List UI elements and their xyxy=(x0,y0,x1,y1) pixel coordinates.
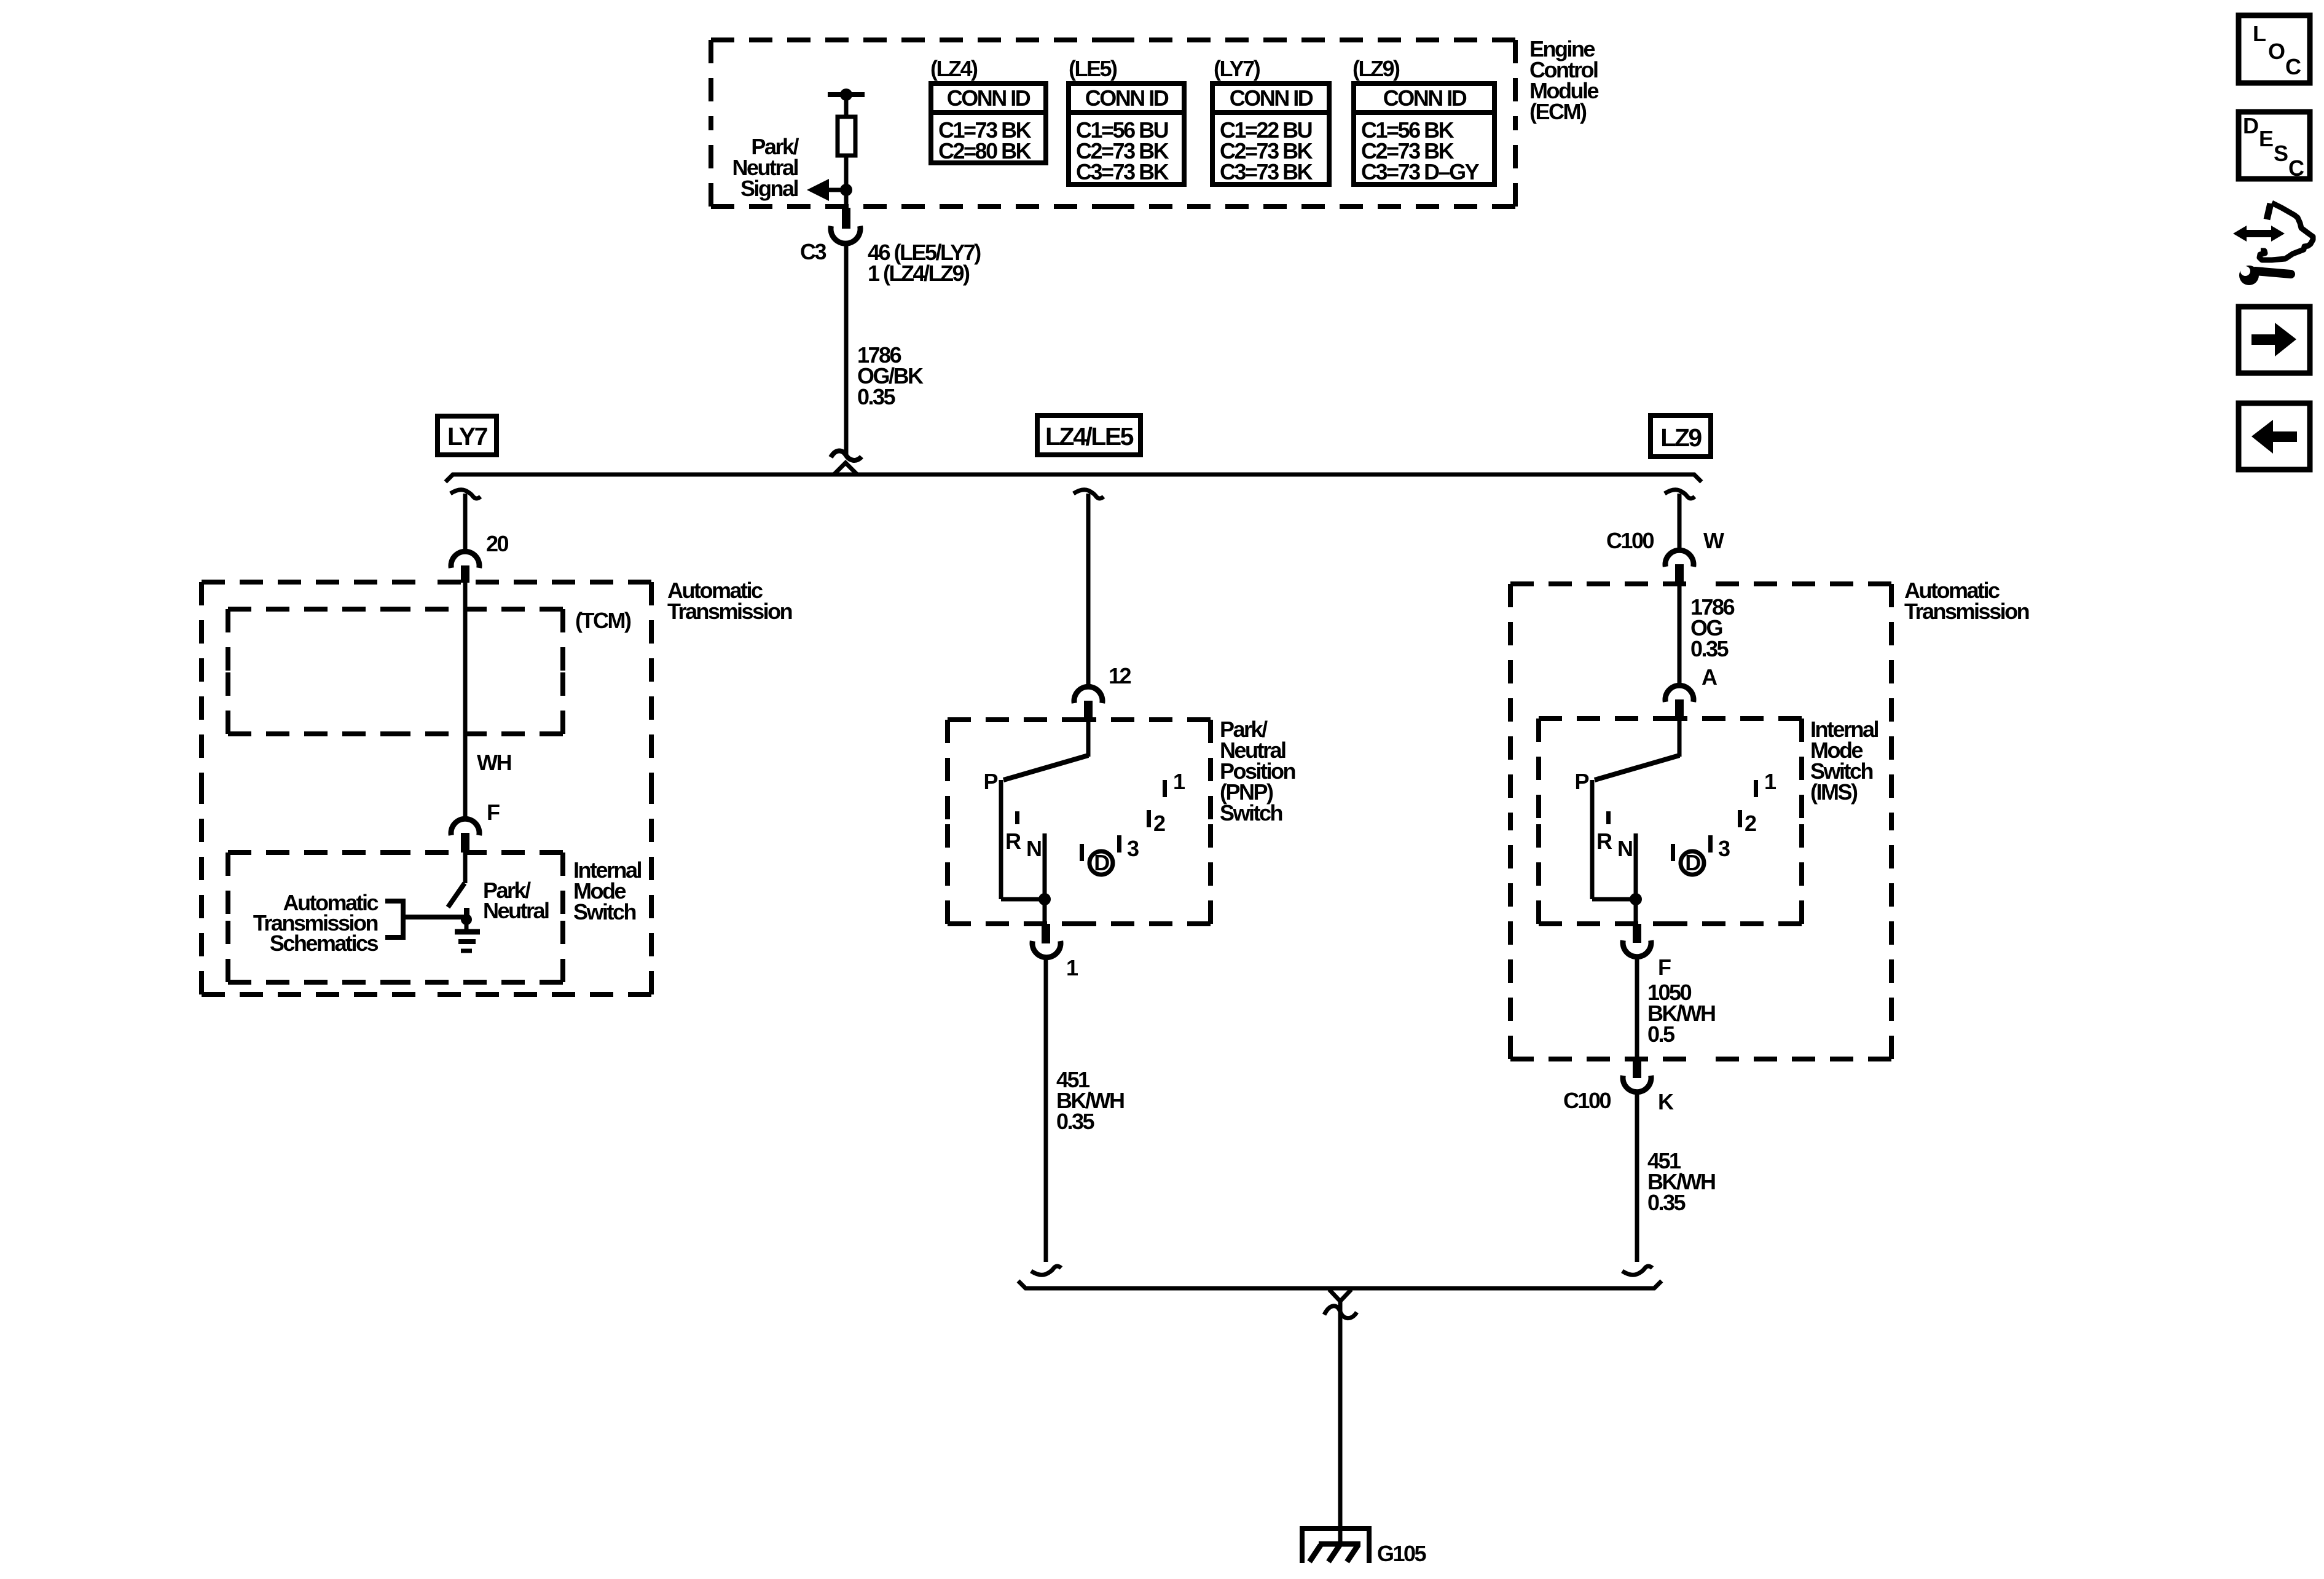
wire 451 BK/WH down to lower bus xyxy=(1044,957,1048,1262)
svg-text:(LZ4): (LZ4) xyxy=(930,56,978,81)
position 1 tick+label (PNP) xyxy=(1163,769,1185,797)
wire WH through TCM xyxy=(463,582,468,818)
wire to schematics bracket xyxy=(403,915,465,919)
Internal Mode Switch box (left) xyxy=(228,853,563,982)
wire: LZ9 branch down to C100 xyxy=(1678,494,1682,550)
svg-text:C100: C100 xyxy=(1606,528,1654,553)
IMS switch lever to P xyxy=(1595,755,1679,780)
svg-text:Transmission: Transmission xyxy=(1904,599,2029,624)
wire label 1786 OG/BK 0.35 xyxy=(857,342,924,409)
position D tick+circled D (IMS) xyxy=(1671,844,1704,875)
connector C100/W: cap arc xyxy=(1665,550,1694,567)
svg-text:Transmission: Transmission xyxy=(667,599,792,624)
wire: LZ9 branch hook at bus xyxy=(1665,490,1695,498)
engine tag LY7 xyxy=(438,416,497,455)
wire label 451 BK/WH 0.35 (right) xyxy=(1647,1148,1715,1215)
svg-text:0.35: 0.35 xyxy=(857,384,896,409)
svg-text:LZ9: LZ9 xyxy=(1660,423,1702,452)
pin numbers at C3 xyxy=(868,240,981,286)
svg-text:(TCM): (TCM) xyxy=(575,608,631,633)
PNP wire inside xyxy=(1086,721,1091,757)
splice tilde on wire above bus xyxy=(831,451,862,460)
svg-text:R: R xyxy=(1596,829,1612,854)
CONN ID table (LZ9) xyxy=(1351,56,1497,184)
svg-text:2: 2 xyxy=(1745,811,1756,836)
svg-text:D: D xyxy=(2243,113,2258,138)
connector C3: pin stub xyxy=(842,208,850,229)
PNP switch label xyxy=(1220,717,1295,825)
svg-text:Signal: Signal xyxy=(740,176,798,201)
connector at pin 20: pin stub xyxy=(461,565,469,583)
connector C3: cup xyxy=(831,226,860,243)
exit wire (PNP pin 1) xyxy=(1043,899,1047,924)
N contact line (PNP) xyxy=(1043,833,1047,899)
svg-text:C: C xyxy=(2285,54,2301,79)
wire label 451 BK/WH 0.35 (middle) xyxy=(1056,1067,1124,1134)
wire resistor to signal node xyxy=(844,156,849,209)
svg-text:N: N xyxy=(1026,836,1041,861)
contact junction dot xyxy=(461,914,472,925)
position 3 tick+label (PNP) xyxy=(1117,835,1139,861)
Automatic Transmission label (left) xyxy=(667,578,792,624)
CONN ID table (LZ4) xyxy=(928,56,1048,163)
P contact line (IMS) xyxy=(1590,780,1595,899)
position 1 tick+label (IMS) xyxy=(1754,769,1776,797)
connector pin F: stub xyxy=(1633,924,1641,943)
svg-text:CONN ID: CONN ID xyxy=(1085,85,1169,111)
svg-text:1: 1 xyxy=(1066,955,1078,980)
bracket to Automatic Transmission Schematics xyxy=(385,899,403,940)
sidebar icon LOC xyxy=(2239,15,2310,83)
wire 451 BK/WH down to lower bus (right) xyxy=(1635,1092,1639,1262)
connector at F: cap arc xyxy=(451,819,479,835)
wire 1786 OG inside box xyxy=(1678,584,1682,685)
R tick (IMS) xyxy=(1606,811,1611,824)
svg-text:F: F xyxy=(1658,955,1671,980)
junction dot (PNP) xyxy=(1038,893,1051,905)
svg-text:L: L xyxy=(2253,21,2266,46)
Automatic Transmission label (right) xyxy=(1904,578,2029,624)
svg-text:Schematics: Schematics xyxy=(270,931,379,956)
svg-text:E: E xyxy=(2259,126,2273,151)
Internal Mode Switch label (left) xyxy=(573,857,642,924)
svg-text:CONN ID: CONN ID xyxy=(1383,85,1467,111)
sidebar icon: double arrow xyxy=(2233,226,2285,242)
svg-text:LZ4/LE5: LZ4/LE5 xyxy=(1045,422,1134,451)
resistor (pull-up inside ECM) xyxy=(838,117,855,156)
connector pin 1: cup xyxy=(1032,941,1061,958)
svg-text:3: 3 xyxy=(1718,836,1730,861)
upper bus wire xyxy=(446,474,1702,482)
svg-text:G105: G105 xyxy=(1377,1541,1427,1566)
bottom hook at lower bus (middle) xyxy=(1031,1266,1061,1275)
svg-text:WH: WH xyxy=(477,750,511,775)
svg-text:1 (LZ4/LZ9): 1 (LZ4/LZ9) xyxy=(868,261,970,286)
IMS switch label (right) xyxy=(1810,717,1878,805)
node: Park/Neutral Signal junction with arrow xyxy=(807,179,852,201)
svg-text:C2=80 BK: C2=80 BK xyxy=(938,138,1032,163)
svg-text:A: A xyxy=(1702,664,1717,690)
svg-text:0.35: 0.35 xyxy=(1690,636,1729,661)
svg-text:(IMS): (IMS) xyxy=(1810,779,1858,805)
sidebar icon DESC xyxy=(2239,112,2310,181)
CONN ID table (LY7) xyxy=(1210,56,1332,184)
svg-text:3: 3 xyxy=(1127,836,1139,861)
svg-text:O: O xyxy=(2268,39,2285,64)
svg-text:0.35: 0.35 xyxy=(1056,1109,1095,1134)
svg-text:D: D xyxy=(1685,850,1700,875)
svg-text:Switch: Switch xyxy=(1220,800,1282,825)
svg-text:(LY7): (LY7) xyxy=(1214,56,1260,81)
svg-text:12: 12 xyxy=(1109,663,1131,688)
splice chevron at bus junction xyxy=(834,463,857,474)
ECM module box xyxy=(711,40,1515,207)
connector at pin 12: cap arc xyxy=(1074,687,1102,703)
svg-text:W: W xyxy=(1703,528,1724,553)
svg-text:(LZ9): (LZ9) xyxy=(1352,56,1400,81)
svg-text:P: P xyxy=(983,769,997,794)
bottom hook at lower bus (right) xyxy=(1622,1266,1652,1275)
Park/Neutral position label (left IMS) xyxy=(483,878,549,923)
svg-text:K: K xyxy=(1658,1089,1674,1114)
switch lever (left IMS) xyxy=(448,883,465,907)
svg-text:P: P xyxy=(1574,769,1588,794)
svg-text:Switch: Switch xyxy=(573,899,636,924)
wire: LZ4/LE5 branch down to pin 12 xyxy=(1086,494,1091,685)
svg-text:C3: C3 xyxy=(800,239,826,264)
connector at pin 12: pin stub xyxy=(1084,701,1093,721)
PNP switch box xyxy=(948,720,1211,924)
switch wire into IMS xyxy=(463,853,468,883)
connector at pin 20: cap arc xyxy=(451,551,479,568)
position D tick+circled D (PNP) xyxy=(1080,844,1113,875)
splice chevron below lower bus xyxy=(1329,1290,1351,1301)
svg-text:0.35: 0.35 xyxy=(1647,1190,1686,1215)
svg-text:(ECM): (ECM) xyxy=(1529,99,1587,124)
sidebar icon: car outline xyxy=(2259,203,2313,260)
position 3 tick+label (IMS) xyxy=(1708,835,1730,861)
connector at pin A: cap arc xyxy=(1665,685,1694,702)
engine tag LZ9 xyxy=(1651,415,1711,457)
bottom wire P to N (PNP) xyxy=(1001,897,1045,902)
wire label 1786 OG 0.35 xyxy=(1690,594,1735,661)
IMS switch box (right) xyxy=(1539,719,1802,924)
ground wire down to G105 xyxy=(1338,1302,1343,1544)
bottom wire P to N (IMS) xyxy=(1592,897,1636,902)
N contact line (IMS) xyxy=(1634,833,1638,899)
svg-text:C3=73 D–GY: C3=73 D–GY xyxy=(1361,159,1480,184)
sidebar icon: next arrow box xyxy=(2239,307,2310,373)
position 2 tick+label (IMS) xyxy=(1738,810,1756,836)
Automatic Transmission Schematics text xyxy=(253,890,379,956)
svg-text:C100: C100 xyxy=(1563,1088,1611,1113)
ECM label xyxy=(1529,36,1598,124)
PNP switch lever to P xyxy=(1003,755,1088,780)
wire: LY7 branch down to pin 20 xyxy=(463,494,468,551)
svg-text:20: 20 xyxy=(486,531,509,556)
engine tag LZ4/LE5 xyxy=(1037,415,1140,455)
splice tilde on ground wire xyxy=(1324,1306,1357,1318)
connector C100/K: stub xyxy=(1633,1059,1641,1078)
Park/Neutral Signal text xyxy=(732,134,799,201)
svg-text:CONN ID: CONN ID xyxy=(947,85,1030,111)
position 2 tick+label (PNP) xyxy=(1147,810,1165,836)
R tick (PNP) xyxy=(1015,811,1019,824)
wire 1050 BK/WH xyxy=(1635,956,1639,1059)
svg-text:S: S xyxy=(2274,141,2288,166)
node: pull-up bar with junction xyxy=(828,89,865,117)
svg-text:0.5: 0.5 xyxy=(1647,1022,1675,1047)
fixed contact tick xyxy=(464,908,469,917)
sidebar icon: back arrow box xyxy=(2239,403,2310,470)
sidebar icon: wrench xyxy=(2236,258,2291,285)
ground G105 symbol xyxy=(1302,1529,1369,1563)
exit wire (IMS pin F) xyxy=(1634,899,1638,924)
connector pin 1: stub xyxy=(1042,924,1050,943)
junction dot (IMS) xyxy=(1630,893,1642,905)
svg-text:Neutral: Neutral xyxy=(483,898,549,923)
wire: LY7 branch hook at bus xyxy=(450,490,481,498)
wire: LZ4/LE5 branch hook at bus xyxy=(1074,490,1104,498)
connector at F: pin stub xyxy=(461,833,469,853)
svg-text:D: D xyxy=(1094,850,1109,875)
svg-text:1: 1 xyxy=(1764,769,1776,794)
svg-text:2: 2 xyxy=(1153,811,1165,836)
svg-text:1: 1 xyxy=(1173,769,1185,794)
svg-text:(LE5): (LE5) xyxy=(1069,56,1117,81)
svg-text:R: R xyxy=(1005,829,1021,854)
lower bus wire xyxy=(1018,1281,1662,1288)
connector pin F: cup xyxy=(1623,940,1651,957)
P contact line (PNP) xyxy=(999,780,1003,899)
connector C100/W: pin stub xyxy=(1675,564,1684,585)
svg-text:C: C xyxy=(2288,156,2304,181)
svg-text:C3=73 BK: C3=73 BK xyxy=(1220,159,1313,184)
wire label 1050 BK/WH 0.5 xyxy=(1647,980,1715,1047)
Automatic Transmission outer box (left) xyxy=(202,582,651,994)
svg-text:N: N xyxy=(1617,836,1632,861)
CONN ID table (LE5) xyxy=(1066,56,1187,184)
TCM inner box xyxy=(228,609,563,734)
IMS wire inside xyxy=(1678,720,1682,757)
connector at pin A: pin stub xyxy=(1675,699,1684,719)
svg-text:CONN ID: CONN ID xyxy=(1230,85,1313,111)
svg-text:F: F xyxy=(487,800,500,825)
connector C100/K: cup xyxy=(1623,1076,1651,1092)
Automatic Transmission outer box (right) xyxy=(1510,584,1891,1059)
ground inside IMS xyxy=(455,919,480,951)
svg-text:C3=73 BK: C3=73 BK xyxy=(1076,159,1169,184)
wire 1786 OG/BK from C3 to splice xyxy=(844,242,849,455)
svg-text:LY7: LY7 xyxy=(447,422,487,451)
